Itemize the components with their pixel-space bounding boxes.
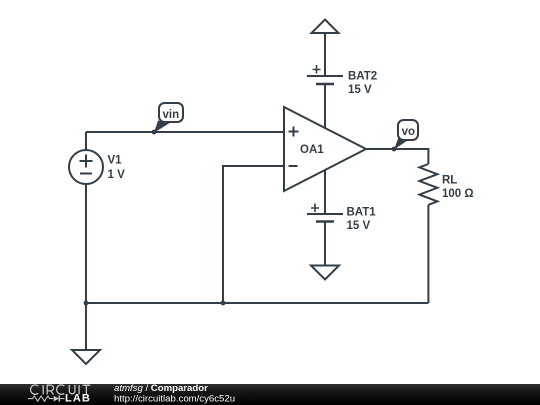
svg-text:100 Ω: 100 Ω	[442, 188, 474, 200]
svg-text:V1: V1	[108, 155, 123, 167]
svg-text:atmfsg / Comparador: atmfsg / Comparador	[114, 383, 208, 394]
svg-text:RL: RL	[442, 175, 457, 187]
ground left	[72, 350, 100, 364]
wire V1 top to op-amp + input	[86, 131, 284, 133]
power supply arrow VCC	[312, 20, 339, 34]
resistor RL	[419, 164, 437, 205]
wire ground stub left	[85, 303, 87, 350]
wire arrow to BAT2	[324, 33, 326, 75]
junction bottom-left	[84, 301, 89, 306]
svg-text:BAT2: BAT2	[348, 71, 377, 83]
svg-text:1 V: 1 V	[108, 169, 126, 181]
svg-text:15 V: 15 V	[347, 220, 371, 232]
label BAT2 value	[348, 71, 377, 97]
svg-text:OA1: OA1	[300, 144, 324, 156]
wire V1 top lead	[85, 132, 87, 150]
footer title text	[114, 383, 235, 405]
svg-text:BAT1: BAT1	[347, 207, 377, 219]
battery BAT2	[307, 65, 343, 84]
wire BAT1 to ground	[324, 223, 326, 266]
label OA1	[300, 144, 324, 156]
wire BAT2 to op-amp top	[324, 85, 326, 128]
battery BAT1	[307, 204, 343, 222]
net flag vo	[394, 120, 418, 150]
wire RL bottom	[427, 205, 429, 303]
footer bar	[0, 384, 540, 405]
junction vin node	[152, 130, 157, 135]
op-amp OA1	[284, 107, 366, 191]
label V1 value	[108, 155, 126, 181]
wire op-amp bottom to BAT1	[324, 170, 326, 213]
voltage source V1	[69, 150, 103, 184]
svg-text:vin: vin	[162, 109, 179, 121]
junction output node	[392, 147, 397, 152]
svg-text:vo: vo	[402, 126, 415, 138]
wire op-amp - input	[223, 166, 284, 303]
wire bottom rail	[86, 302, 428, 304]
svg-text:15 V: 15 V	[348, 84, 372, 96]
net flag vin	[154, 103, 183, 133]
label RL value	[442, 175, 474, 201]
label BAT1 value	[347, 207, 377, 233]
svg-text:LAB: LAB	[65, 393, 91, 405]
ground right	[311, 266, 339, 280]
CircuitLab logo	[28, 385, 91, 405]
svg-text:http://circuitlab.com/cy6c52u: http://circuitlab.com/cy6c52u	[114, 394, 235, 405]
wire op-amp output	[366, 149, 428, 164]
junction bottom-mid	[221, 301, 226, 306]
wire V1 bottom lead	[85, 184, 87, 303]
